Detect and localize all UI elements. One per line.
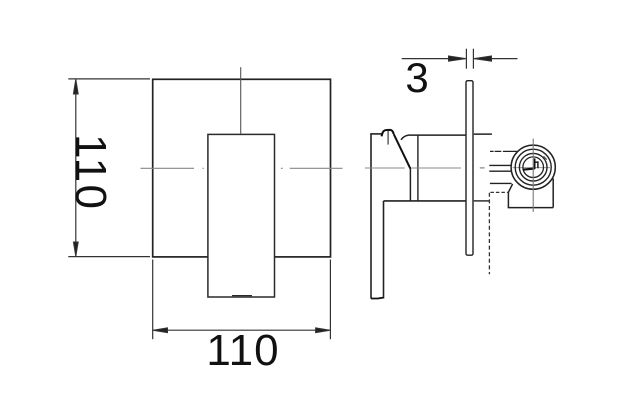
side view: valve outer circle <box>511 145 555 189</box>
side view: lower port line <box>490 182 512 184</box>
svg-text:3: 3 <box>405 54 428 101</box>
side view: hidden outline dashed vertical <box>488 193 490 274</box>
dimension 3: right extension line <box>472 49 474 69</box>
front view: handle bottom notch <box>232 295 252 297</box>
side view: centerline dash right of plate <box>480 167 485 169</box>
svg-text:110: 110 <box>66 134 115 211</box>
side view: wall plate (3mm) <box>466 81 473 256</box>
side view: handle lever bottom edge <box>371 297 384 300</box>
front view: horizontal centerline right segment <box>281 167 343 169</box>
front view: handle rectangle <box>208 134 275 297</box>
side view: circles vertical centerline <box>532 139 534 212</box>
side view: upper dash-dot port line <box>490 150 517 152</box>
side view: hub front face <box>409 168 411 201</box>
side view: valve circle 3 <box>519 153 547 181</box>
dimension 3: left extension line <box>465 49 467 69</box>
dimension 110 vertical: bottom extension line <box>68 256 150 258</box>
side view: top connection line behind plate <box>474 133 492 135</box>
dimension 110 horizontal: left extension line <box>152 260 154 340</box>
side view: handle lever right edge <box>383 201 385 299</box>
front view: horizontal centerline left segment <box>141 167 204 169</box>
dimension 110 horizontal: right extension line <box>329 260 331 340</box>
side view: inlet pipe top line <box>489 164 511 166</box>
side view: body bottom edge <box>508 207 554 209</box>
side view: handle lever top edge <box>370 133 382 135</box>
side view: body right vertical <box>552 179 554 208</box>
side view: body bottom-left vertical <box>507 192 509 207</box>
dimension 110 vertical: top extension line <box>68 78 150 80</box>
side view: escutcheon flange vertical <box>417 135 419 201</box>
dimension 110 horizontal: dimension line with arrows <box>153 328 330 333</box>
dimension 3: right dimension line with left-pointing arrow <box>474 56 518 61</box>
side view: circle tick mark <box>544 156 547 159</box>
svg-text:110: 110 <box>206 326 279 375</box>
side view: valve circle 2 <box>515 149 551 185</box>
side view: body bottom hidden stub right of plate <box>474 200 490 202</box>
side view: handle hook arc at top <box>382 130 394 136</box>
side view: handle neck diagonal <box>394 134 411 169</box>
side view: horizontal centerline through assembly <box>365 167 461 169</box>
front view: square wall plate 110x110 <box>153 79 331 257</box>
side view: cartridge stem key detail <box>523 169 535 170</box>
side view: escutcheon bottom edge <box>384 200 467 202</box>
side view: escutcheon top edge with curve <box>401 135 466 140</box>
front view: vertical centerline <box>240 67 242 134</box>
side view: handle lever left edge <box>370 134 372 298</box>
side view: circles horizontal centerline <box>513 167 551 169</box>
side view: body chamfer diagonal <box>508 184 512 192</box>
side view: hidden outline dashed horizontal <box>490 191 508 193</box>
dimension 110 vertical: dimension line with arrows <box>73 79 78 256</box>
side view: inlet pipe bottom line <box>489 170 511 172</box>
dimension 3: left dimension line with right-pointing arrow <box>402 56 466 61</box>
side view: handle hub stem <box>387 131 389 145</box>
side view: valve inner circle <box>523 157 544 178</box>
